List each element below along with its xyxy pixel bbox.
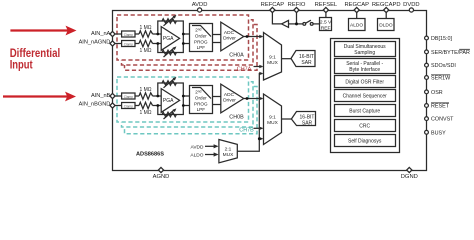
pin AIN_nAGND	[110, 41, 115, 46]
svg-text:Self Diagnosys: Self Diagnosys	[348, 138, 382, 144]
svg-text:Order: Order	[195, 34, 207, 39]
pin AIN_nB	[110, 93, 115, 98]
svg-text:Input: Input	[10, 60, 33, 72]
channel A stacked dashed box middle	[122, 20, 254, 65]
svg-text:DVDD: DVDD	[403, 2, 419, 8]
wire LPF A to ADC driver bottom	[213, 42, 221, 44]
DIGITAL BLOCK	[331, 39, 400, 153]
svg-text:DB[15:0]: DB[15:0]	[431, 36, 452, 42]
svg-text:AGND: AGND	[153, 174, 170, 180]
svg-text:Clamp: Clamp	[124, 105, 133, 109]
svg-text:REFSEL: REFSEL	[315, 2, 338, 8]
svg-text:9:1: 9:1	[269, 115, 276, 121]
variable resistor B top	[162, 81, 176, 86]
svg-text:AIN_nBGND: AIN_nBGND	[79, 102, 111, 108]
op-amp PGA B	[161, 89, 179, 113]
svg-text:RESET: RESET	[431, 104, 450, 110]
clamp B2	[122, 103, 135, 109]
block Self Diagnosys	[335, 135, 396, 147]
wire MUX B to SAR B	[282, 118, 292, 120]
filter block LPF A (2nd Order PROG LPF)	[190, 24, 213, 52]
svg-text:Clamp: Clamp	[124, 33, 133, 37]
svg-text:ALDO: ALDO	[190, 153, 203, 159]
wire REFCAP down	[272, 10, 281, 24]
CHANNEL A	[113, 15, 264, 72]
svg-text:ADC: ADC	[224, 92, 235, 98]
switch REFSEL switch	[303, 23, 306, 26]
svg-text:PROG: PROG	[194, 39, 208, 44]
svg-text:REFIO: REFIO	[288, 2, 306, 8]
wire CH0B to MUX B	[244, 98, 263, 100]
svg-text:Digital OSR Filter: Digital OSR Filter	[345, 79, 384, 85]
svg-text:1 MΩ: 1 MΩ	[139, 25, 151, 31]
svg-text:SAR: SAR	[302, 121, 313, 127]
wire REGCAPD down	[385, 10, 387, 18]
variable resistor arrow B bottom	[164, 110, 175, 119]
svg-text:LPF: LPF	[197, 45, 206, 50]
wire AIN_nBGND to clamp B2	[113, 105, 122, 107]
wire AIN_nAGND to clamp A2	[113, 43, 122, 45]
digital block container	[331, 39, 400, 153]
variable resistor arrow A bottom	[164, 48, 175, 57]
amplifier ADC Driver A	[221, 22, 244, 51]
wire clamp A2 to resistor	[135, 43, 139, 45]
pin RESET	[425, 104, 429, 108]
pin DVDD	[409, 8, 413, 12]
junction dots PGA A output	[182, 33, 185, 36]
wire PGA B to LPF bottom	[183, 105, 189, 107]
resistor R_B2 1 MΩ	[139, 102, 153, 108]
adc 16-BIT SAR A	[291, 51, 315, 67]
resistor R_B1 1 MΩ	[139, 93, 153, 99]
wire resistor to PGA A - input	[153, 43, 162, 45]
REF CIRCUIT AND LDOS	[272, 10, 394, 31]
feedback loop B top wire	[158, 83, 184, 96]
svg-text:Clamp: Clamp	[124, 95, 133, 99]
svg-text:REGCAP: REGCAP	[344, 2, 369, 8]
wire LPF B to ADC driver bottom	[213, 104, 221, 106]
svg-text:CONVST: CONVST	[431, 117, 454, 123]
wire ALDO to 2:1 MUX	[205, 154, 215, 156]
wire AVDD to 2:1 MUX	[205, 145, 215, 147]
svg-text:PROG: PROG	[194, 101, 208, 106]
svg-text:1 MΩ: 1 MΩ	[139, 110, 151, 116]
svg-text:Clamp: Clamp	[124, 43, 133, 47]
svg-text:9:1: 9:1	[269, 54, 276, 60]
feedback loop A bottom wire	[158, 44, 184, 53]
svg-text:1 MΩ: 1 MΩ	[139, 87, 151, 93]
svg-text:MUX: MUX	[223, 152, 234, 158]
variable resistor A top	[162, 19, 176, 24]
red arrow 2	[3, 95, 68, 97]
wire resistor to PGA B + input	[153, 95, 162, 97]
wire CH7A to MUX A	[254, 66, 263, 68]
variable resistor arrow B top	[164, 79, 175, 88]
svg-text:2:1: 2:1	[225, 146, 232, 152]
pin CONVST	[425, 117, 429, 121]
svg-text:REFCAP: REFCAP	[261, 2, 285, 8]
block Dual Simultaneous Sampling	[335, 42, 396, 57]
svg-text:SDOx/SDI: SDOx/SDI	[431, 63, 456, 69]
wire resistor to PGA B - input	[153, 105, 162, 107]
block Channel Sequencer	[335, 90, 396, 102]
channel B dashed box CH0B (front)	[117, 77, 249, 122]
svg-text:ADC: ADC	[224, 30, 235, 36]
svg-text:Channel Sequencer: Channel Sequencer	[343, 94, 388, 100]
svg-text:LPF: LPF	[197, 107, 206, 112]
channel B stacked dashed box middle	[122, 82, 254, 127]
wire REGCAP down	[356, 10, 358, 18]
resistor R_A2 1 MΩ	[139, 40, 153, 46]
wire CH7B to MUX B	[254, 127, 263, 129]
filter block LPF B (2nd Order PROG LPF)	[190, 86, 213, 114]
svg-text:REGCAPD: REGCAPD	[372, 2, 401, 8]
channel B stacked dashed box CH7B (back)	[125, 87, 258, 134]
clamp A2	[122, 41, 135, 47]
pin SDOx/SDI	[425, 63, 429, 67]
svg-text:1 MΩ: 1 MΩ	[139, 48, 151, 54]
svg-text:AIN_nAGND: AIN_nAGND	[79, 40, 111, 46]
junction aux branch	[258, 137, 261, 140]
voltage reference 2.5 V REF	[320, 18, 332, 31]
junction dots PGA B inputs	[156, 95, 159, 98]
wire LPF B to ADC driver top	[213, 96, 221, 98]
pin DGND (bottom)	[407, 167, 412, 172]
svg-text:ADS8686S: ADS8686S	[136, 152, 164, 158]
wire resistor to PGA A + input	[153, 33, 162, 35]
wire 2:1 MUX output to MUX A and MUX B	[237, 74, 262, 152]
pin AGND (bottom)	[158, 167, 163, 172]
mux 9:1 MUX B	[264, 94, 282, 145]
wire PGA A to LPF bottom	[183, 43, 189, 45]
wire PGA B output vertical	[182, 96, 184, 106]
svg-text:Byte Interface: Byte Interface	[349, 67, 380, 73]
pin BUSY	[425, 130, 429, 134]
clamp A1	[122, 31, 135, 37]
svg-text:OSR: OSR	[431, 90, 443, 96]
resistor R_A1 1 MΩ	[139, 31, 153, 37]
svg-text:16-BIT: 16-BIT	[299, 54, 314, 60]
svg-text:Burst Capture: Burst Capture	[349, 108, 380, 114]
pin SER/BYTE/PAR	[425, 50, 429, 54]
op-amp PGA A	[161, 27, 179, 51]
svg-text:CH7B: CH7B	[239, 127, 254, 133]
AUX 2:1 MUX	[190, 72, 263, 163]
block Serial-Parallel-Byte Interface	[335, 59, 396, 74]
pin REGCAP	[354, 7, 359, 12]
wire clamp B2 to resistor	[135, 105, 139, 107]
wire REFIO down	[296, 10, 298, 24]
regulator ALDO	[349, 19, 366, 31]
channel A stacked dashed box CH7A (back)	[125, 25, 258, 71]
pin OSR	[425, 90, 429, 94]
wire buffer input to REFIO node	[289, 23, 304, 25]
svg-text:Differential: Differential	[10, 48, 61, 60]
variable resistor B bottom	[162, 112, 176, 117]
block Burst Capture	[335, 105, 396, 117]
mux 9:1 MUX A	[264, 33, 282, 81]
svg-text:AIN_nA: AIN_nA	[91, 31, 111, 37]
clamp B1	[122, 93, 135, 99]
variable resistor arrow A top	[164, 17, 175, 26]
junction dots PGA A inputs	[156, 33, 159, 36]
svg-text:16-BIT: 16-BIT	[299, 114, 314, 120]
MUXES-SARS	[264, 33, 316, 145]
wire AIN_nB to clamp B1	[113, 95, 122, 97]
wire aux branch to MUX B	[259, 138, 262, 140]
svg-text:SAR: SAR	[301, 60, 312, 66]
pin REFCAP	[270, 7, 275, 12]
svg-text:Driver: Driver	[223, 36, 236, 42]
buffer ref buffer U_ref	[282, 20, 289, 27]
wire switch to 2.5V REF	[313, 23, 320, 25]
chip outline ADS8686S boundary	[113, 11, 427, 171]
svg-text:CH0A: CH0A	[229, 52, 244, 58]
regulator DLDO	[378, 19, 395, 31]
block CRC	[335, 120, 396, 132]
wire MUX A to SAR A	[282, 58, 292, 60]
svg-text:REF: REF	[321, 25, 331, 31]
svg-text:2.5 V: 2.5 V	[320, 19, 332, 25]
feedback loop B bottom wire	[158, 106, 184, 115]
svg-text:ALDO: ALDO	[350, 22, 363, 28]
svg-text:Order: Order	[195, 96, 207, 101]
pin AVDD (top)	[198, 8, 202, 12]
pin DB[15:0] (right)	[425, 36, 429, 40]
DIFFERENTIAL INPUT ANNOTATION	[3, 26, 77, 102]
wire PGA A output vertical	[182, 34, 184, 44]
pin AIN_nA (left)	[110, 31, 115, 36]
svg-text:PGA: PGA	[163, 98, 174, 104]
pin REFIO	[294, 7, 299, 12]
svg-text:CRC: CRC	[359, 123, 370, 129]
pin SER1W	[425, 76, 429, 80]
pin REGCAPD	[384, 7, 389, 12]
svg-text:Sampling: Sampling	[354, 50, 375, 56]
svg-text:CH0B: CH0B	[229, 114, 244, 120]
svg-text:AVDD: AVDD	[191, 144, 205, 150]
red arrow 1	[10, 29, 68, 31]
svg-text:BUSY: BUSY	[431, 130, 446, 136]
wire LPF A to ADC driver top	[213, 34, 221, 36]
wire AIN_nA to clamp A1	[113, 33, 122, 35]
feedback loop A top wire	[158, 21, 184, 34]
pin AIN_nBGND	[110, 103, 115, 108]
mux 2:1 MUX aux	[219, 140, 237, 163]
svg-text:MUX: MUX	[267, 60, 278, 66]
adc 16-BIT SAR B	[291, 112, 315, 126]
svg-text:CH7A: CH7A	[237, 66, 252, 72]
amplifier ADC Driver B	[221, 84, 244, 113]
wire PGA A to LPF top	[183, 33, 189, 35]
svg-text:DGND: DGND	[401, 174, 418, 180]
svg-text:AVDD: AVDD	[192, 2, 208, 8]
block Digital OSR Filter	[335, 76, 396, 88]
wire PGA B to LPF top	[183, 95, 189, 97]
CHANNEL B	[113, 77, 264, 133]
svg-text:PGA: PGA	[163, 36, 174, 42]
svg-text:SER/BYTE/PAR: SER/BYTE/PAR	[431, 50, 470, 56]
svg-text:DLDO: DLDO	[379, 22, 393, 28]
wire clamp A1 to resistor	[135, 33, 139, 35]
wire REFSEL down	[325, 10, 327, 18]
wire clamp B1 to resistor	[135, 95, 139, 97]
PINS	[79, 2, 470, 180]
wire CH0A to MUX A	[244, 36, 263, 38]
svg-text:AIN_nB: AIN_nB	[91, 93, 111, 99]
svg-text:Driver: Driver	[223, 98, 236, 104]
channel A dashed box CH0A (front)	[117, 15, 249, 60]
svg-text:SER1W: SER1W	[431, 76, 451, 82]
junction dots PGA B output	[182, 95, 185, 98]
pin REFSEL	[323, 7, 328, 12]
junction node REFIO	[295, 22, 298, 25]
variable resistor A bottom	[162, 50, 176, 55]
svg-text:MUX: MUX	[267, 120, 278, 126]
